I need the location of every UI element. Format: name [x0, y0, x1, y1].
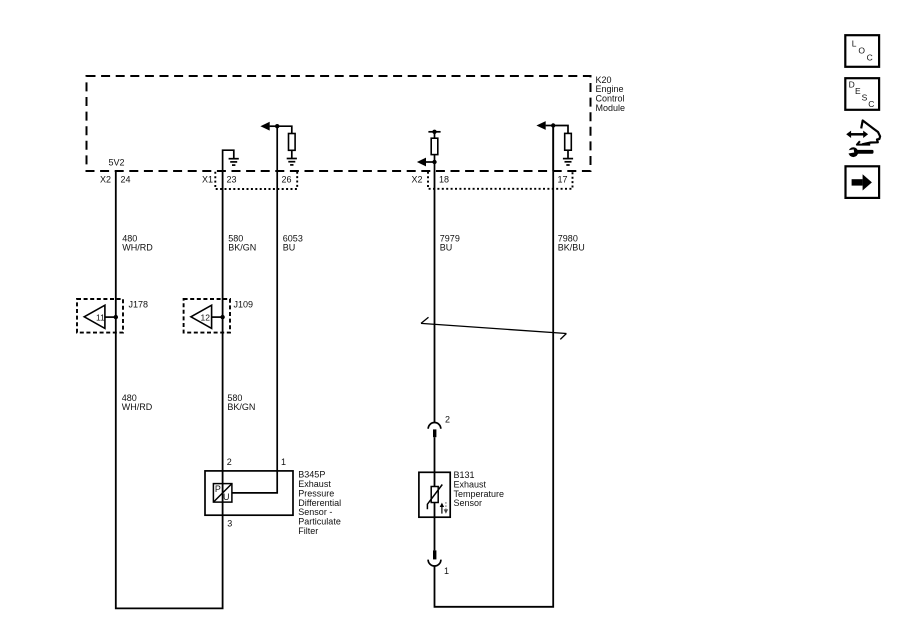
in-line connector socket (pin 2 of B131, female half): [428, 423, 441, 429]
wire label 7980 BK/BU: [558, 234, 585, 253]
in-line connector pin (male half): [433, 429, 436, 437]
wire pin 18 internal: [434, 132, 436, 138]
label B345P description: [298, 470, 341, 536]
wire to resistor (pin 26): [277, 126, 292, 133]
signal arrow (pin 18, to left): [426, 161, 435, 163]
ground (pin 26 internal): [287, 159, 297, 165]
svg-text:J109: J109: [234, 299, 254, 309]
svg-text:2: 2: [445, 414, 450, 424]
wire connector to B131: [434, 437, 436, 486]
wire circuit 7979 BU (pin 18 down to in-line connector): [434, 171, 436, 423]
svg-text:U: U: [223, 492, 230, 502]
svg-text:12: 12: [201, 312, 211, 322]
wire label 6053 BU: [283, 234, 303, 253]
wire B131 lower lead: [434, 503, 436, 551]
svg-text:BK/GN: BK/GN: [228, 243, 256, 253]
wire circuit 480 WH/RD (pin 24 down, bottom U to B345P pin 3): [116, 171, 223, 608]
label K20 Engine Control Module: [596, 75, 626, 113]
wire circuit 6053 BU (pin 26 down into B345P to sensor element): [232, 171, 277, 493]
svg-text:J178: J178: [129, 299, 149, 309]
svg-text:WH/RD: WH/RD: [122, 402, 153, 412]
sensor B131 box: [419, 472, 450, 517]
svg-text:24: 24: [121, 175, 131, 185]
wire label 480 WH/RD (lower): [122, 393, 153, 412]
svg-text:Module: Module: [596, 103, 626, 113]
svg-text:C: C: [867, 53, 873, 63]
wire resistor to ground (pin 17): [567, 150, 569, 158]
pin 23 internal ground jog wire: [223, 150, 234, 171]
node junction dot pin 17: [551, 123, 555, 127]
wire circuit 7980 BK/BU (pin 17 down, bottom U to connector): [435, 126, 554, 607]
svg-text:E: E: [855, 86, 861, 96]
pin 18 internal T-bar: [428, 131, 440, 133]
node junction dot pin 18 top: [432, 130, 436, 134]
splice J178 dashed box: [77, 299, 123, 333]
resistor (pin 18, in line): [431, 138, 438, 154]
svg-text:Sensor: Sensor: [454, 498, 483, 508]
wire label 580 BK/GN (lower): [227, 393, 255, 412]
connector X1 dotted box (pins 23,26): [215, 172, 297, 189]
connector pin labels row: [100, 175, 568, 185]
svg-text:C: C: [868, 99, 874, 109]
wire circuit 580 BK/GN (pin 23 down to B345P pin 2): [222, 171, 224, 484]
svg-text:11: 11: [96, 312, 105, 322]
svg-text:BK/GN: BK/GN: [227, 402, 255, 412]
connector X2 dotted box (pins 18,17): [428, 172, 573, 189]
icon right-arrow box: [846, 166, 880, 198]
svg-text:18: 18: [439, 175, 449, 185]
wire pin 26 internal stub: [276, 126, 278, 171]
svg-text:X2: X2: [100, 175, 111, 185]
in-line connector socket (female half, cavity 1): [428, 560, 441, 566]
node junction dot pin 18 lower: [432, 160, 436, 164]
svg-text:S: S: [862, 93, 868, 103]
svg-text:1: 1: [444, 566, 449, 576]
wire label 580 BK/GN (upper): [228, 234, 256, 253]
thermistor up arrow: [441, 506, 443, 513]
signal arrow (pin 26, to left): [270, 125, 278, 127]
sensor B345P box: [205, 471, 293, 515]
svg-text:X1: X1: [202, 175, 213, 185]
svg-text:3: 3: [227, 518, 232, 528]
svg-text:1: 1: [281, 457, 286, 467]
svg-text:2: 2: [227, 457, 232, 467]
splice J109 dashed box: [184, 299, 230, 333]
twisted pair indicator line: [421, 317, 566, 339]
wire splice J178 to circuit: [105, 316, 116, 318]
node splice J109 junction dot: [220, 315, 224, 319]
icon DESC box: [845, 78, 879, 110]
svg-text:BU: BU: [440, 243, 453, 253]
resistor (pin 17 pull, internal): [565, 133, 572, 150]
wire resistor to ground (pin 26): [291, 150, 293, 158]
in-line connector pin (male half, cavity 1): [433, 550, 436, 559]
svg-text:WH/RD: WH/RD: [122, 243, 153, 253]
svg-text:23: 23: [227, 175, 237, 185]
svg-text:5V2: 5V2: [109, 158, 125, 168]
node splice J178 junction dot: [114, 315, 118, 319]
node junction dot pin 26: [275, 124, 279, 128]
svg-text:26: 26: [282, 175, 292, 185]
svg-text:17: 17: [558, 175, 568, 185]
svg-text:BU: BU: [283, 243, 296, 253]
icon vehicle with double arrow and wrench: [846, 121, 881, 158]
ground (pin 17 internal): [563, 159, 573, 165]
wire pin 17 internal stub: [552, 126, 554, 172]
svg-text:O: O: [858, 45, 865, 55]
pressure transducer P/U symbol box: [213, 484, 232, 503]
thermistor diagonal stroke: [427, 485, 442, 510]
wire label 7979 BU: [440, 234, 460, 253]
svg-text:P: P: [215, 484, 221, 494]
svg-text:X2: X2: [412, 175, 423, 185]
wire splice J109 to circuit: [212, 316, 223, 318]
P/U symbol diagonal: [214, 484, 232, 502]
ECM K20 dashed enclosure box: [87, 76, 591, 171]
svg-text:D: D: [849, 79, 855, 89]
icon LOC box: [845, 35, 879, 67]
wire to resistor (pin 17): [553, 126, 568, 134]
svg-text:Filter: Filter: [298, 526, 318, 536]
splice J178 triangle: [84, 305, 105, 328]
wire pin 18 lower internal: [434, 155, 436, 171]
splice J109 triangle: [191, 305, 212, 328]
svg-text:BK/BU: BK/BU: [558, 243, 585, 253]
wire through P/U symbol: [222, 484, 224, 516]
ground (pin 23 internal): [229, 159, 239, 165]
wire label 480 WH/RD (upper): [122, 234, 153, 253]
thermistor down arrow (gray): [445, 502, 447, 510]
resistor (pin 26 pull, internal): [289, 134, 296, 151]
thermistor element body: [431, 487, 438, 503]
signal arrow (pin 17, to left): [546, 125, 554, 127]
label B131 description: [454, 470, 505, 508]
svg-text:L: L: [852, 38, 857, 48]
